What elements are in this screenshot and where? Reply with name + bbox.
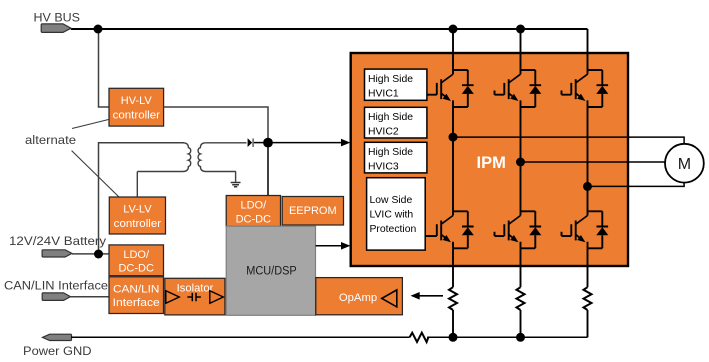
- wire: HV-LV controller output to node: [164, 107, 268, 138]
- wire: phase W to motor: [588, 183, 685, 187]
- node: gnd junction 1: [449, 333, 458, 342]
- shunt resistor R3: [584, 287, 592, 310]
- HV-LV controller block: [109, 88, 164, 126]
- low side LVIC box: [367, 178, 426, 250]
- wire: secondary top to diode: [206, 142, 247, 144]
- wire: phase leg 3 (top): [587, 29, 589, 70]
- wire: phase leg 2 middle: [520, 107, 522, 211]
- svg-text:M: M: [678, 156, 691, 173]
- transformer T1 primary winding: [137, 143, 190, 172]
- wire: Q6 gate stub tick: [561, 232, 563, 236]
- svg-text:High Side: High Side: [368, 112, 413, 123]
- wire: R1 to gnd rail: [452, 310, 454, 337]
- ground symbol: [231, 183, 241, 187]
- MCU/DSP block: [226, 226, 315, 315]
- wire: R3 to gnd rail: [587, 310, 589, 337]
- OpAmp block: [316, 278, 403, 315]
- svg-text:controller: controller: [113, 110, 161, 122]
- opamp triangle symbol: [382, 290, 397, 307]
- CAN/LIN Interface block: [109, 277, 164, 314]
- wire: phase leg 3 middle: [587, 107, 589, 211]
- wire: phase leg 2 (top): [520, 29, 522, 70]
- arrow: MCU to IPM low-side input: [316, 245, 343, 247]
- svg-text:Isolator: Isolator: [177, 282, 214, 294]
- svg-text:LV-LV: LV-LV: [123, 204, 152, 216]
- CAN/LIN pin connector: [42, 293, 70, 301]
- wire: R2 to gnd rail: [520, 310, 522, 337]
- shunt resistor R2: [517, 287, 525, 310]
- wire: Q3 gate stub tick: [561, 91, 563, 95]
- node: bus junction phase1: [449, 25, 458, 34]
- motor M: [665, 144, 704, 183]
- wire: primary return to LV-LV controller: [136, 172, 138, 198]
- high side HVIC2 box: [365, 107, 427, 138]
- transistor Q3 high: [562, 70, 609, 107]
- transistor Q6 low: [562, 211, 609, 248]
- pointer line to HV-LV controller: [72, 120, 109, 129]
- svg-text:OpAmp: OpAmp: [339, 292, 377, 304]
- wire: bottom leg 2: [520, 248, 522, 287]
- node: diode output junction: [263, 138, 273, 148]
- node: phase U: [449, 133, 458, 142]
- wire: bottom leg 1: [452, 248, 454, 287]
- arrow: shunt sense to OpAmp: [418, 295, 443, 297]
- svg-text:HVIC1: HVIC1: [368, 88, 399, 99]
- svg-text:Power GND: Power GND: [23, 344, 92, 358]
- wire: bottom leg 3: [587, 248, 589, 287]
- transistor Q1 high: [427, 70, 474, 107]
- wire: node down to LDO/DC-DC: [267, 147, 269, 196]
- svg-text:12V/24V Battery: 12V/24V Battery: [9, 234, 107, 248]
- wire: HV bus top rail: [71, 28, 588, 30]
- svg-text:controller: controller: [114, 218, 162, 230]
- svg-text:LDO/: LDO/: [240, 200, 267, 212]
- arrow: node to IPM high-side input: [273, 142, 343, 144]
- svg-text:CAN/LIN: CAN/LIN: [113, 284, 159, 296]
- svg-text:MCU/DSP: MCU/DSP: [246, 264, 297, 278]
- svg-text:alternate: alternate: [25, 133, 76, 147]
- svg-text:HV-LV: HV-LV: [121, 95, 153, 107]
- IPM block: [351, 53, 628, 266]
- high side HVIC1 box: [365, 69, 427, 100]
- wire: battery to LDO: [72, 253, 109, 255]
- LDO/DC-DC block (left): [109, 245, 164, 276]
- wire: battery riser to transformer primary: [99, 143, 185, 254]
- wire: phase leg 1 middle: [452, 107, 454, 211]
- node: bus junction phase2: [516, 25, 525, 34]
- LDO/DC-DC block (above MCU): [226, 196, 280, 227]
- svg-text:IPM: IPM: [477, 154, 506, 172]
- svg-text:DC-DC: DC-DC: [236, 214, 271, 226]
- svg-text:CAN/LIN Interface: CAN/LIN Interface: [4, 279, 108, 293]
- svg-text:HV BUS: HV BUS: [34, 11, 81, 25]
- isolator buffer triangle right: [210, 291, 224, 304]
- wire: phase leg 1 (top): [452, 29, 454, 70]
- wire: Q2 gate stub tick: [494, 91, 496, 95]
- wire: Q5 gate stub tick: [494, 232, 496, 236]
- svg-text:LDO/: LDO/: [123, 249, 150, 261]
- transistor Q4 low: [427, 211, 474, 248]
- ground rail wire: [71, 336, 587, 338]
- svg-text:EEPROM: EEPROM: [289, 205, 337, 217]
- transistor Q2 high: [495, 70, 542, 107]
- svg-text:HVIC3: HVIC3: [368, 161, 399, 172]
- node: battery junction: [94, 250, 103, 259]
- isolator capacitive barrier: [187, 293, 201, 302]
- svg-text:High Side: High Side: [368, 74, 413, 85]
- svg-text:Low Side: Low Side: [370, 195, 413, 206]
- transformer T1 secondary winding: [198, 143, 236, 172]
- sense resistor R4 (horizontal): [410, 333, 429, 342]
- node: phase W: [583, 182, 592, 191]
- svg-text:HVIC2: HVIC2: [368, 126, 399, 137]
- battery pin connector: [42, 250, 72, 257]
- shunt resistor R1: [449, 287, 457, 310]
- svg-text:High Side: High Side: [368, 147, 413, 158]
- wire: diode to node: [254, 142, 268, 144]
- transistor Q5 low: [495, 211, 542, 248]
- svg-text:DC-DC: DC-DC: [118, 262, 153, 274]
- wire: LVIC box to Q4 gate: [425, 235, 429, 237]
- high side HVIC3 box: [365, 142, 427, 173]
- diode D1: [248, 138, 253, 147]
- wire: secondary return to ground: [235, 172, 237, 182]
- svg-text:Interface: Interface: [113, 297, 160, 309]
- LV-LV controller block: [109, 197, 165, 234]
- node: gnd junction 2: [516, 333, 525, 342]
- EEPROM block: [282, 197, 343, 226]
- Isolator block: [165, 278, 225, 315]
- svg-text:LVIC with: LVIC with: [370, 210, 414, 221]
- wire: phase V to motor: [521, 161, 666, 163]
- isolator buffer triangle left: [166, 291, 180, 304]
- pointer line to LV-LV controller: [72, 151, 119, 197]
- Power GND pin connector: [43, 334, 72, 340]
- HV BUS pin connector: [41, 24, 71, 33]
- wire: phase U to motor: [453, 137, 684, 144]
- node: phase V: [516, 158, 525, 167]
- wire: CAN pin to interface block: [70, 296, 109, 298]
- wire: bus drop to HV-LV controller: [99, 29, 110, 107]
- node: bus junction left: [94, 25, 103, 34]
- svg-text:Protection: Protection: [370, 224, 417, 235]
